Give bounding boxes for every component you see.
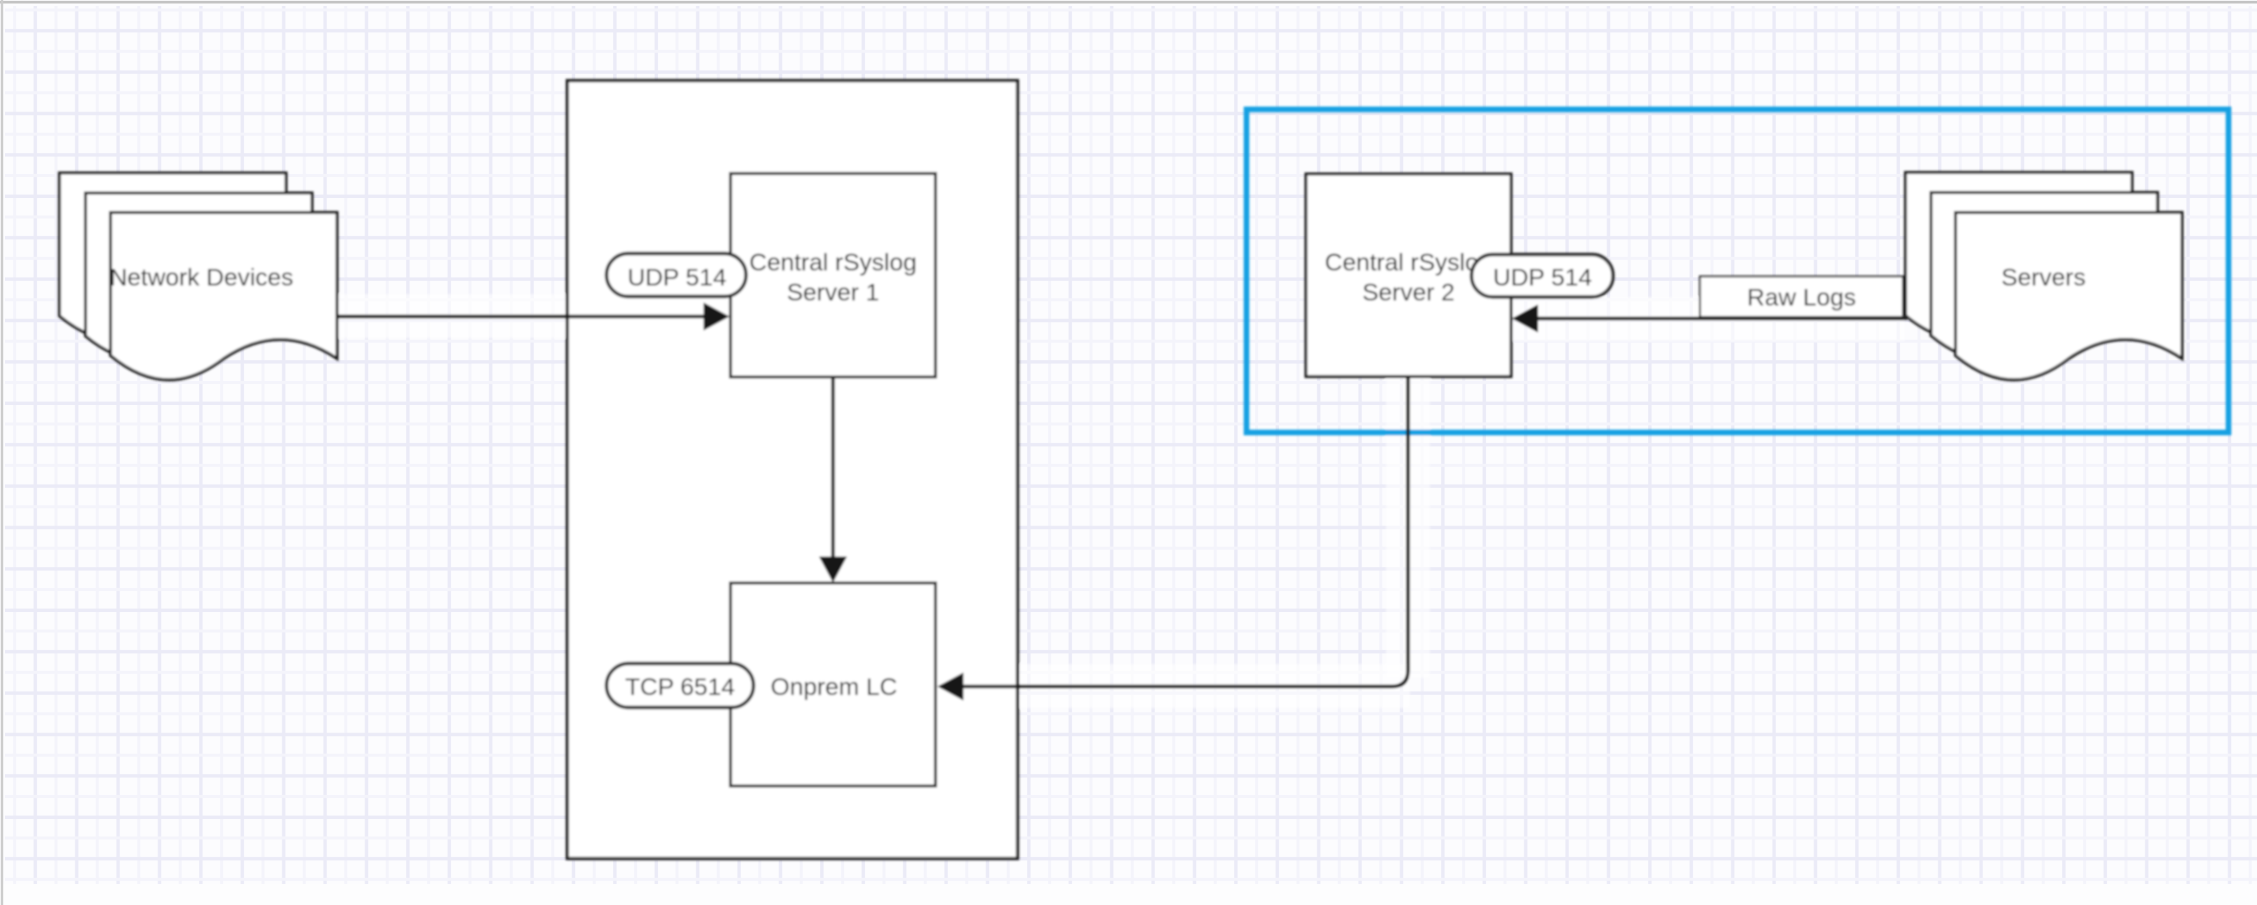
multi-document shape: Servers <box>1906 173 2183 380</box>
arrowhead into Onprem LC top <box>819 557 847 583</box>
pill UDP 514 (right) <box>1472 255 1614 298</box>
svg-text:Server 2: Server 2 <box>1362 280 1455 307</box>
server box: Central rSyslog Server 1 <box>731 174 936 378</box>
svg-text:TCP 6514: TCP 6514 <box>625 674 735 701</box>
arrowhead into Onprem LC right <box>938 673 964 701</box>
multi-document shape: Network Devices <box>60 173 338 380</box>
back document <box>60 173 287 340</box>
svg-text:Raw Logs: Raw Logs <box>1747 285 1856 312</box>
white glow band along raw-logs arrow <box>1513 297 1905 341</box>
svg-text:UDP 514: UDP 514 <box>1493 265 1592 292</box>
wire: Servers to Server 2 <box>1537 317 1907 321</box>
front document <box>1956 213 2183 380</box>
svg-text:Servers: Servers <box>2001 265 2085 292</box>
blue highlight rectangle <box>1247 109 2229 432</box>
svg-text:Onprem LC: Onprem LC <box>771 674 898 701</box>
svg-text:Network Devices: Network Devices <box>110 265 294 292</box>
white glow band along arrow 1 <box>336 294 728 338</box>
front document <box>111 213 338 380</box>
middle document <box>1931 193 2158 360</box>
pill TCP 6514 <box>607 664 754 708</box>
wire: Server 2 down and left to Onprem LC <box>961 378 1408 687</box>
svg-text:Server 1: Server 1 <box>787 280 880 307</box>
wire: Network Devices to Server 1 <box>336 315 706 319</box>
container box <box>567 81 1017 859</box>
pill UDP 514 (left) <box>607 254 747 297</box>
arrowhead into Server 1 <box>704 303 730 331</box>
svg-text:UDP 514: UDP 514 <box>628 265 727 292</box>
left grey border <box>1 0 3 905</box>
edge label: Raw Logs <box>1700 277 1903 318</box>
server box: Onprem LC <box>731 583 936 786</box>
svg-text:Central rSyslog: Central rSyslog <box>749 250 916 277</box>
middle document <box>86 193 313 360</box>
svg-text:Central rSyslog: Central rSyslog <box>1325 250 1492 277</box>
white glow band along elbow connector <box>1020 664 1410 708</box>
wire: Server 1 down to Onprem LC <box>831 378 835 559</box>
back document <box>1906 173 2133 340</box>
arrowhead into Server 2 right <box>1512 305 1538 333</box>
top grey border <box>0 1 2257 4</box>
server box: Central rSyslog Server 2 <box>1306 174 1511 377</box>
bottom white strip <box>0 884 2257 905</box>
